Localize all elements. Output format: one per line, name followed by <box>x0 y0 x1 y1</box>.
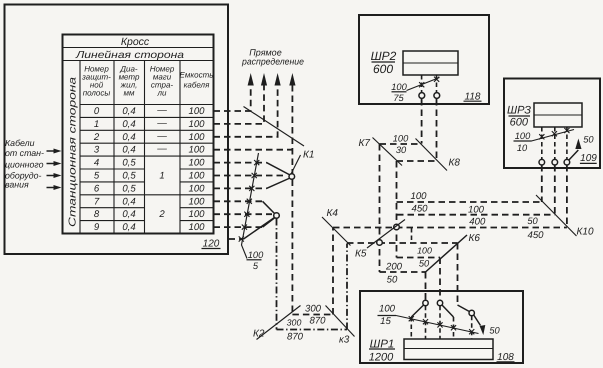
wire y272 (200/50) <box>380 271 426 273</box>
svg-text:100: 100 <box>188 196 205 207</box>
svg-text:30: 30 <box>396 145 407 155</box>
svg-text:ционного: ционного <box>5 160 44 170</box>
svg-text:—: — <box>156 144 167 155</box>
cut mark SHR1-c <box>437 322 442 327</box>
wire K2 upper horizontal <box>292 314 333 316</box>
svg-text:2: 2 <box>158 209 165 220</box>
wire from lower node down (chain) <box>276 219 278 330</box>
wire y144 (100/30) to K7 corner <box>380 143 422 145</box>
arrow into row 6 <box>47 185 62 190</box>
svg-text:50: 50 <box>489 326 500 336</box>
leader K5 <box>367 220 405 249</box>
table data rows <box>93 105 205 233</box>
wire row5 <box>214 175 288 177</box>
wire x425 to block <box>425 306 427 339</box>
svg-text:100: 100 <box>515 131 531 141</box>
wire SHR3 block to node 1 <box>541 127 543 159</box>
svg-text:К5: К5 <box>355 249 367 260</box>
node K1 lower junction <box>274 213 280 219</box>
leader K1 to node <box>291 155 301 174</box>
svg-text:100: 100 <box>248 250 264 260</box>
cut mark SHR1-e <box>469 329 474 334</box>
wire riser x379.5 from K7 to K5 node 2 <box>379 144 381 272</box>
svg-text:100: 100 <box>468 205 485 216</box>
node SHR3-3 <box>564 159 570 165</box>
leader 100/10 <box>531 130 574 142</box>
svg-text:Емкость: Емкость <box>180 71 214 80</box>
node K5 junction 2 <box>377 240 383 246</box>
svg-text:600: 600 <box>373 62 393 76</box>
SHR2 terminal block <box>403 51 458 75</box>
svg-text:к3: к3 <box>339 335 350 346</box>
cut mark extra wire <box>239 236 244 241</box>
cut mark SHR2 right <box>434 77 439 82</box>
svg-text:К2: К2 <box>253 329 265 340</box>
wire extra lower feed <box>229 238 244 240</box>
column header: Номер защитной полосы <box>81 65 111 98</box>
svg-text:К8: К8 <box>449 158 461 169</box>
svg-text:0,4: 0,4 <box>122 145 135 156</box>
svg-text:—: — <box>156 118 167 129</box>
leader 100/75 <box>407 78 440 91</box>
wire SHR2 node1 down to y144 <box>421 99 423 144</box>
wire up to K4 corner 1 <box>332 228 334 315</box>
svg-text:100: 100 <box>188 119 205 130</box>
svg-text:5: 5 <box>94 171 100 182</box>
wire SHR2 block to node 1 <box>421 75 423 93</box>
svg-text:400: 400 <box>469 217 486 228</box>
wire row8 <box>214 213 273 215</box>
svg-text:0,4: 0,4 <box>122 209 135 220</box>
svg-text:8: 8 <box>94 209 100 220</box>
cut mark SHR2 left <box>419 82 424 87</box>
SHR1 terminal block <box>404 339 493 360</box>
wire y257 (100/50) <box>397 257 441 259</box>
wire SHR3 block to node 2 <box>554 127 556 159</box>
wire slant into node SHR1-3 <box>458 305 470 312</box>
svg-text:50: 50 <box>419 259 430 269</box>
svg-text:100: 100 <box>188 106 205 117</box>
svg-text:7: 7 <box>94 196 100 207</box>
wire y243 from K4 chain corner to x457 <box>347 242 458 244</box>
cut mark SHR1-d <box>451 325 456 330</box>
wire y202 (100/450) <box>397 201 542 203</box>
cut mark SHR1-b <box>423 319 428 324</box>
svg-text:К4: К4 <box>327 208 339 219</box>
leader 100/15 <box>396 316 479 334</box>
wire y228 from K4 to SHR3 right riser <box>333 227 567 229</box>
wire y161 to K7 corner <box>397 160 437 162</box>
svg-text:100: 100 <box>188 171 205 182</box>
wire up to K4 corner 2 (chain) <box>346 244 348 330</box>
cut mark row8 <box>244 212 249 217</box>
leader K8 <box>416 139 448 171</box>
svg-text:100: 100 <box>379 304 396 315</box>
wire row9 <box>214 226 263 228</box>
wire branch x412 between y228 and y243 <box>411 228 413 243</box>
svg-text:3: 3 <box>94 145 100 156</box>
svg-text:50: 50 <box>583 134 594 144</box>
cut mark SHR3-1 <box>539 134 544 139</box>
left note: Кабели от станционного оборудования <box>5 138 44 190</box>
svg-text:—: — <box>156 131 167 142</box>
wire K2 lower horizontal (chain) <box>277 329 348 331</box>
svg-text:0,4: 0,4 <box>122 196 135 207</box>
svg-text:Линейная сторона: Линейная сторона <box>75 50 185 61</box>
box SHR3 <box>504 79 600 169</box>
box SHR1 <box>360 291 523 363</box>
svg-text:0,4: 0,4 <box>122 222 135 233</box>
svg-text:К10: К10 <box>577 227 594 238</box>
wire SHR2 block to node 2 <box>436 75 438 93</box>
wire drop x425 into SHR1 <box>425 272 427 300</box>
svg-text:0,5: 0,5 <box>122 171 136 182</box>
node SHR1-1 <box>423 300 428 305</box>
svg-text:распределение: распределение <box>241 56 304 66</box>
leader K10 <box>536 195 577 236</box>
svg-text:100: 100 <box>391 82 407 92</box>
svg-text:120: 120 <box>203 239 220 250</box>
wire row3 to up-arrow 4 and down to K2 corner <box>214 149 293 151</box>
SHR3 terminal block <box>534 103 582 127</box>
wire x453 to block <box>453 317 455 339</box>
arrow into row 4 <box>47 161 62 166</box>
svg-text:кабеля: кабеля <box>184 81 210 90</box>
svg-text:870: 870 <box>287 332 304 343</box>
svg-text:К1: К1 <box>303 150 314 161</box>
svg-text:5: 5 <box>253 261 259 271</box>
wire row2 to up-arrow 3 <box>214 85 278 137</box>
wire SHR3 block to node 3 <box>566 127 568 159</box>
svg-text:50: 50 <box>387 275 398 286</box>
svg-text:ШРЗ: ШРЗ <box>507 104 531 116</box>
svg-text:0: 0 <box>94 106 100 117</box>
svg-text:75: 75 <box>393 93 404 103</box>
svg-text:0,4: 0,4 <box>122 106 135 117</box>
cut mark row7 <box>247 199 252 204</box>
leader K1 across bends <box>244 107 305 147</box>
cross-connect table frame <box>63 35 214 234</box>
svg-text:50: 50 <box>527 216 538 226</box>
svg-text:100: 100 <box>393 134 409 144</box>
svg-text:полосы: полосы <box>83 89 111 98</box>
leader K4 <box>322 217 351 246</box>
svg-text:Станционная сторона: Станционная сторона <box>68 76 79 227</box>
wire row6 <box>214 187 267 189</box>
arrow into row 3 <box>47 149 62 154</box>
wire SHR3 node1 down to y202 <box>541 165 543 202</box>
svg-text:450: 450 <box>527 230 544 241</box>
column header: Номер магистрали <box>150 65 175 98</box>
svg-text:100: 100 <box>417 246 432 256</box>
cut mark row6 <box>249 186 254 191</box>
svg-text:6: 6 <box>94 183 100 194</box>
svg-text:ШР2: ШР2 <box>371 49 397 63</box>
wire SHR3 node3 branch with up arrow 50 <box>569 150 578 160</box>
fan wire row4 to node K1 <box>267 163 291 175</box>
wire row4 <box>214 162 267 164</box>
cut mark row9 <box>242 225 247 230</box>
svg-text:870: 870 <box>309 316 326 327</box>
svg-text:К6: К6 <box>469 233 481 244</box>
svg-text:10: 10 <box>517 143 528 153</box>
svg-text:мм: мм <box>124 89 135 98</box>
node K5 junction 1 <box>394 224 400 230</box>
svg-text:—: — <box>156 105 167 116</box>
wire node2 slant to x453 <box>442 305 454 317</box>
svg-text:300: 300 <box>287 318 302 328</box>
svg-text:Кабели: Кабели <box>5 138 35 148</box>
wire node3 slant to arrow 50 <box>474 315 481 326</box>
fan wire row6 to node K1 <box>267 178 291 188</box>
fan wire row9 to lower node <box>263 218 276 228</box>
cut mark row5 <box>252 173 257 178</box>
svg-text:100: 100 <box>188 158 205 169</box>
column header: Диаметр жил, мм <box>119 65 140 98</box>
svg-text:2: 2 <box>93 132 100 143</box>
wire SHR3 node3 down to y227 <box>566 165 568 228</box>
svg-text:300: 300 <box>305 304 322 315</box>
node SHR3-1 <box>539 159 545 165</box>
wire y215 (100/400) <box>397 214 555 216</box>
node K1 upper junction <box>289 174 295 180</box>
svg-text:100: 100 <box>188 145 205 156</box>
leader K7 <box>373 138 403 166</box>
svg-text:100: 100 <box>188 132 205 143</box>
wire x411 to block <box>410 317 412 339</box>
wire K6 rising link <box>426 235 468 272</box>
svg-text:1: 1 <box>94 119 99 130</box>
svg-text:109: 109 <box>580 153 597 164</box>
leader K2 <box>257 306 301 340</box>
wire riser x396.5 from K7 to K5 node 1 and below <box>396 161 398 258</box>
svg-text:ли: ли <box>157 89 168 98</box>
station-side outer box <box>5 5 229 255</box>
leader 100/5 through cut marks <box>242 153 259 259</box>
arrow into row 5 <box>47 173 62 178</box>
wire drop x440 into SHR1 <box>439 258 441 301</box>
wire x440 to block <box>439 306 441 339</box>
cut mark row4 <box>254 160 259 165</box>
svg-text:4: 4 <box>94 158 99 169</box>
column header: Емкость кабеля <box>180 71 214 90</box>
node SHR2-1 <box>419 93 425 99</box>
svg-text:100: 100 <box>410 191 427 202</box>
svg-text:200: 200 <box>385 261 403 272</box>
svg-text:600: 600 <box>510 116 529 128</box>
cut mark SHR1-a <box>409 316 414 321</box>
svg-text:вания: вания <box>5 180 29 190</box>
cut mark SHR3-3 <box>564 128 569 133</box>
svg-text:1: 1 <box>159 171 164 182</box>
fan wire extra to lower node <box>244 218 275 240</box>
svg-text:100: 100 <box>188 183 205 194</box>
svg-text:100: 100 <box>188 209 205 220</box>
node SHR1-3 <box>469 310 474 315</box>
svg-text:450: 450 <box>411 203 428 214</box>
svg-text:100: 100 <box>188 222 205 233</box>
svg-text:Кросс: Кросс <box>121 36 150 48</box>
leader K3 <box>326 306 355 337</box>
svg-text:15: 15 <box>380 316 391 327</box>
wire row7 <box>214 200 263 202</box>
node SHR1-2 <box>437 300 442 305</box>
wire drop x457 into SHR1 <box>457 243 459 305</box>
svg-text:0,4: 0,4 <box>122 132 135 143</box>
svg-text:от стан-: от стан- <box>5 148 44 158</box>
svg-text:9: 9 <box>94 222 100 233</box>
node SHR2-2 <box>434 93 440 99</box>
wire node1 slant to x411 <box>411 305 423 317</box>
fan wire row7 to lower node <box>263 201 276 214</box>
cut mark SHR3-2 <box>552 131 557 136</box>
svg-text:0,5: 0,5 <box>122 183 136 194</box>
node SHR3-2 <box>552 159 558 165</box>
wire SHR2 node2 down to y161 <box>436 99 438 161</box>
svg-text:0,5: 0,5 <box>122 158 136 169</box>
wire row1 to up-arrow 2 <box>214 85 265 124</box>
wire SHR3 node2 down to y215 <box>554 165 556 215</box>
box SHR2 <box>359 15 489 104</box>
wire row0 to up-arrow 1 <box>214 85 251 111</box>
wire x471 to block <box>471 316 473 339</box>
svg-text:0,4: 0,4 <box>122 119 135 130</box>
svg-text:1200: 1200 <box>369 351 394 363</box>
svg-text:К7: К7 <box>359 138 371 149</box>
